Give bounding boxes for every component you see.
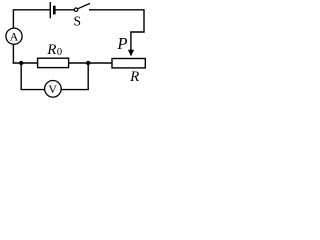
svg-text:S: S [74,14,82,29]
svg-text:V: V [48,82,57,96]
svg-text:P: P [116,34,127,53]
svg-text:0: 0 [57,47,62,58]
svg-text:A: A [10,30,19,44]
svg-text:R: R [129,69,139,85]
svg-text:R: R [46,42,56,58]
